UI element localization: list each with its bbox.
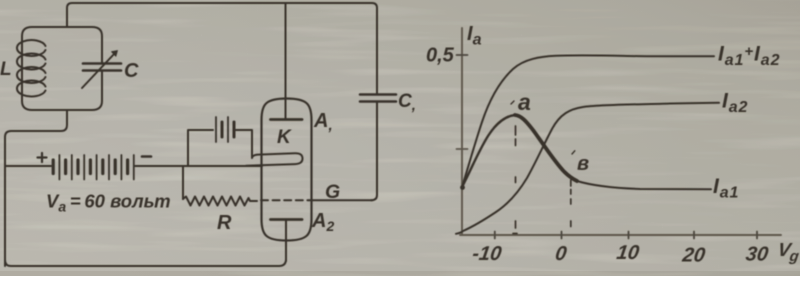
wire: filament battery to cathode drop bbox=[236, 130, 252, 157]
svg-text:K: K bbox=[277, 127, 292, 148]
variable capacitor C arrow bbox=[82, 53, 115, 88]
dashed drop from point a bbox=[513, 126, 517, 234]
svg-text:R: R bbox=[217, 212, 232, 234]
svg-text:30: 30 bbox=[744, 244, 769, 266]
wire: tank bottom down-left to left rail bbox=[5, 110, 67, 266]
inductor L (coil) bbox=[17, 40, 46, 97]
x-axis Vg bbox=[460, 234, 781, 236]
wire: battery to cathode bbox=[135, 165, 262, 167]
anode A1 plate bbox=[271, 118, 303, 121]
wire: top rail to tank top bbox=[67, 3, 72, 27]
svg-text:C: C bbox=[124, 60, 139, 82]
wire: right rail bbox=[371, 8, 377, 200]
variable capacitor C plates bbox=[83, 64, 121, 71]
y-axis mid tick bbox=[457, 148, 468, 150]
svg-text:a: a bbox=[518, 89, 531, 115]
y-axis tick 0.5 bbox=[457, 54, 468, 56]
wire: left rail to battery bbox=[5, 165, 51, 167]
battery Va plates bbox=[53, 155, 134, 180]
node: curves origin blob bbox=[460, 185, 465, 190]
cathode K filament bbox=[246, 153, 303, 166]
anode A2 lead bbox=[285, 220, 287, 261]
curve Ia2 bbox=[456, 103, 719, 234]
curve Ia1 flat tail bbox=[577, 181, 711, 189]
tick before a bbox=[511, 101, 514, 104]
wire: bottom rail bbox=[5, 259, 286, 266]
curve Ia1 falling part (thick) bbox=[515, 115, 577, 181]
curve Ia1+Ia2 bbox=[462, 55, 714, 187]
grid G dashed electrode bbox=[261, 199, 309, 201]
svg-text:L: L bbox=[0, 59, 12, 80]
svg-text:G: G bbox=[325, 181, 340, 203]
resistor R bbox=[183, 197, 257, 206]
triode tube envelope bbox=[262, 99, 312, 241]
battery minus sign bbox=[142, 155, 151, 158]
capacitor C1 plates bbox=[360, 95, 396, 102]
tank circuit loop (L C box) bbox=[22, 27, 102, 110]
filament battery plates bbox=[216, 117, 228, 142]
wire: top rail bbox=[72, 3, 377, 8]
anode A2 plate bbox=[271, 218, 303, 221]
wire: junction up to filament battery bbox=[188, 130, 213, 166]
tick before v bbox=[572, 151, 575, 154]
svg-text:10: 10 bbox=[615, 242, 640, 264]
svg-text:20: 20 bbox=[680, 245, 706, 267]
svg-text:0,5: 0,5 bbox=[426, 45, 455, 67]
x-axis ticks bbox=[495, 232, 757, 239]
anode A1 lead bbox=[285, 3, 287, 119]
curve Ia1 rising part bbox=[462, 115, 515, 187]
wire: junction down to resistor R bbox=[182, 166, 184, 199]
dashed drop from point b bbox=[570, 180, 572, 227]
svg-text:-10: -10 bbox=[471, 243, 503, 265]
battery plus sign bbox=[38, 153, 47, 162]
svg-text:в: в bbox=[577, 153, 589, 175]
wire: grid to right rail bbox=[309, 199, 372, 201]
y-axis Ia bbox=[461, 28, 463, 235]
